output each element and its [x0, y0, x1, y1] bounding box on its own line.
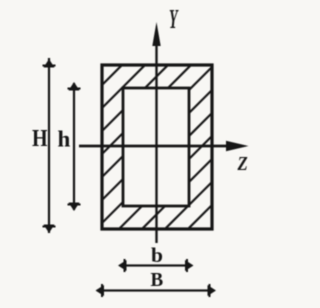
- B left arrow: [96, 285, 105, 296]
- hatch line 1: [0, 58, 129, 236]
- h bottom arrow: [69, 203, 80, 212]
- dimension line H: [48, 58, 50, 233]
- svg-text:b: b: [151, 243, 163, 267]
- svg-text:Z: Z: [237, 153, 248, 176]
- dimension line h: [73, 83, 75, 210]
- hatching of section wall: [0, 58, 320, 236]
- hatch line 10: [158, 58, 320, 236]
- Y axis line: [155, 38, 157, 243]
- hatch line 4: [20, 58, 198, 236]
- hatch line 3: [0, 58, 175, 236]
- svg-text:h: h: [58, 127, 71, 152]
- b right arrow: [185, 260, 194, 271]
- Z axis line: [79, 145, 234, 148]
- dimension line b: [120, 264, 192, 266]
- svg-text:Y: Y: [169, 4, 179, 34]
- Y axis arrowhead: [152, 22, 160, 46]
- Z axis arrowhead: [226, 141, 249, 151]
- hatch line 12: [204, 58, 320, 236]
- inner rectangle (hole): [123, 88, 189, 206]
- B right arrow: [208, 285, 217, 296]
- h top arrow: [69, 82, 80, 91]
- H top arrow: [44, 59, 55, 68]
- hatch line 9: [135, 58, 313, 236]
- svg-text:H: H: [32, 124, 48, 151]
- svg-text:В: В: [151, 270, 164, 292]
- hatch line 6: [66, 58, 244, 236]
- H bottom arrow: [44, 225, 55, 234]
- dimension line B: [97, 289, 212, 291]
- hatch line 8: [112, 58, 290, 236]
- b left arrow: [118, 260, 127, 271]
- hatch line 7: [89, 58, 267, 236]
- hatch line 5: [43, 58, 221, 236]
- outer rectangle of hollow section: [102, 65, 212, 229]
- hatch line 2: [0, 58, 152, 236]
- hatch line 11: [181, 58, 320, 236]
